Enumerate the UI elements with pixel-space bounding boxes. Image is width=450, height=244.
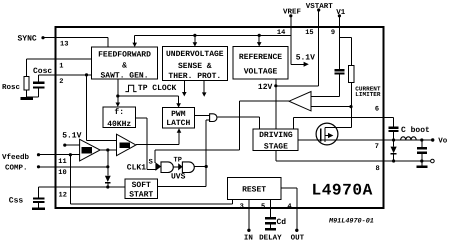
svg-text:12: 12: [59, 192, 67, 200]
svg-text:TP CLOCK: TP CLOCK: [138, 84, 177, 93]
svg-text:VOLTAGE: VOLTAGE: [244, 67, 278, 76]
svg-text:11: 11: [58, 158, 66, 166]
svg-text:DRIVING: DRIVING: [259, 131, 293, 140]
svg-text:14: 14: [277, 29, 285, 37]
svg-text:SAWT. GEN.: SAWT. GEN.: [100, 72, 148, 81]
svg-text:THER. PROT.: THER. PROT.: [168, 72, 221, 81]
svg-text:M91L4970-01: M91L4970-01: [328, 218, 374, 226]
svg-text:Cd: Cd: [277, 218, 287, 227]
svg-text:40KHz: 40KHz: [107, 120, 131, 129]
svg-text:1: 1: [59, 62, 63, 70]
svg-text:LIMITER: LIMITER: [355, 91, 381, 98]
svg-text:Vfeedb: Vfeedb: [2, 153, 30, 162]
svg-text:COMP: COMP: [121, 144, 129, 149]
svg-text:Rosc: Rosc: [2, 84, 21, 92]
svg-text:13: 13: [60, 40, 68, 48]
svg-text:C boot: C boot: [401, 126, 430, 135]
svg-text:E/A: E/A: [83, 149, 91, 154]
svg-text:5: 5: [261, 203, 265, 211]
svg-text:OUT: OUT: [291, 233, 305, 242]
svg-text:Css: Css: [9, 196, 24, 205]
svg-text:S: S: [149, 159, 153, 167]
svg-text:15: 15: [305, 29, 313, 37]
svg-text:IN: IN: [244, 234, 253, 242]
svg-text:DELAY: DELAY: [259, 234, 282, 242]
svg-text:L4970A: L4970A: [312, 181, 373, 199]
svg-text:PWM: PWM: [171, 110, 186, 119]
svg-text:UNDERVOLTAGE: UNDERVOLTAGE: [166, 50, 224, 59]
svg-text:FEEDFORWARD: FEEDFORWARD: [98, 51, 151, 60]
svg-text:6: 6: [375, 105, 379, 113]
svg-text:9: 9: [331, 29, 335, 37]
svg-text:TP: TP: [174, 156, 182, 164]
svg-text:8: 8: [376, 165, 380, 173]
svg-text:2: 2: [59, 78, 63, 86]
svg-text:5.1V: 5.1V: [296, 53, 315, 62]
svg-text:V1: V1: [336, 9, 346, 17]
svg-text:CLK1: CLK1: [127, 163, 146, 172]
svg-text:SOFT: SOFT: [132, 181, 151, 190]
svg-text:7: 7: [375, 143, 379, 151]
svg-text:RESET: RESET: [242, 185, 266, 194]
svg-text:3: 3: [240, 203, 244, 211]
svg-text:Vo: Vo: [438, 138, 448, 146]
svg-text:10: 10: [58, 169, 66, 177]
svg-text:START: START: [129, 191, 153, 200]
svg-text:&: &: [122, 62, 127, 71]
svg-text:SYNC: SYNC: [18, 34, 37, 43]
svg-text:UVS: UVS: [171, 172, 186, 181]
svg-text:5.1V: 5.1V: [62, 132, 81, 141]
svg-text:12V: 12V: [258, 83, 273, 92]
svg-text:SENSE &: SENSE &: [178, 62, 212, 71]
svg-text:REFERENCE: REFERENCE: [239, 53, 282, 62]
svg-text:f:: f:: [114, 108, 124, 117]
svg-text:4: 4: [287, 203, 291, 211]
svg-text:COMP.: COMP.: [5, 163, 28, 172]
svg-text:LATCH: LATCH: [166, 119, 190, 128]
